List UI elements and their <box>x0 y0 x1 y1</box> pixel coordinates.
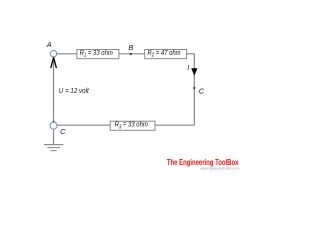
svg-text:C: C <box>60 127 66 136</box>
wire circle C to ground <box>53 129 55 144</box>
resistor R1 value label <box>80 50 114 58</box>
voltage source label U = 12 volt <box>59 88 90 95</box>
wire top: circle A to resistor R1 <box>57 53 77 55</box>
resistor R3 value label <box>115 121 149 129</box>
wire left vertical: circle A to circle C <box>53 57 55 122</box>
svg-text:U = 12 volt: U = 12 volt <box>59 88 90 95</box>
wire top right: R2 to corner, down right side <box>187 54 195 125</box>
terminal circle C <box>50 122 57 129</box>
terminal circle A <box>50 51 56 57</box>
svg-text:www.EngineeringToolBox.com: www.EngineeringToolBox.com <box>200 165 240 170</box>
node C junction dot on right wire <box>193 87 195 89</box>
current arrow down (filled triangle) on right wire <box>191 68 197 76</box>
resistor R2 value label <box>147 50 181 58</box>
wire bottom: resistor R3 to circle C <box>57 124 110 126</box>
current arrow up at A <box>51 57 56 67</box>
svg-text:I: I <box>187 63 189 72</box>
node B junction dot <box>130 53 132 55</box>
resistor R1 box <box>77 50 119 59</box>
svg-text:C: C <box>199 86 205 95</box>
junction dot top of circle C <box>52 121 54 123</box>
resistor R3 box <box>110 121 155 130</box>
svg-text:A: A <box>46 40 52 49</box>
ground symbol <box>44 145 64 151</box>
wire bottom: right corner to resistor R3 <box>155 124 194 126</box>
svg-text:B: B <box>128 43 133 52</box>
wire top: resistor R1 to resistor R2 <box>119 53 145 55</box>
resistor R2 box <box>145 50 187 59</box>
